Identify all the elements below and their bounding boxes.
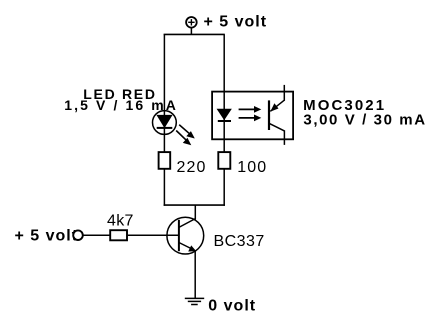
svg-text:BC337: BC337 — [214, 233, 265, 250]
wire right rail upper — [223, 34, 225, 151]
wire R3 to base — [128, 234, 179, 236]
U1 emitter pin — [283, 130, 285, 145]
supply terminal +5V (circle with plus) — [186, 17, 197, 28]
wire terminal to R3 — [83, 234, 109, 236]
U1 phototransistor emitter diagonal — [269, 123, 284, 131]
U1 light arrow 2 — [239, 115, 262, 122]
U1 collector pin — [283, 85, 285, 101]
svg-text:4k7: 4k7 — [107, 213, 134, 230]
Q1 base bar — [178, 220, 180, 251]
LED D1 circle — [153, 111, 177, 135]
Q1 emitter diagonal with arrow — [179, 243, 196, 252]
LED emission arrow 2 — [176, 131, 191, 146]
wire left rail lower — [163, 169, 165, 206]
resistor R2 100 — [218, 152, 230, 169]
LED emission arrow 1 — [179, 125, 195, 139]
wire bottom rail — [164, 204, 225, 206]
optocoupler U1 MOC3021 box — [212, 92, 293, 140]
wire emitter down — [194, 251, 196, 299]
svg-text:0 volt: 0 volt — [208, 297, 256, 314]
resistor R1 220 — [159, 152, 171, 169]
LED D1 anode triangle — [157, 115, 171, 127]
LED D1 cathode bar — [157, 127, 173, 129]
wire right rail lower — [223, 169, 225, 206]
U1 internal LED triangle — [218, 109, 231, 119]
wire top rail — [164, 33, 225, 35]
svg-text:+ 5 volt: + 5 volt — [204, 14, 268, 31]
wire left rail upper — [163, 34, 165, 151]
U1 phototransistor bar — [268, 100, 270, 130]
svg-text:220: 220 — [177, 159, 207, 176]
svg-text:100: 100 — [237, 159, 267, 176]
svg-text:3,00 V / 30 mA: 3,00 V / 30 mA — [303, 112, 426, 129]
U1 light arrow 1 — [239, 106, 262, 113]
U1 internal LED bar — [218, 120, 231, 122]
resistor R3 4k7 — [110, 230, 127, 240]
transistor Q1 BC337 circle — [167, 217, 204, 254]
Q1 collector diagonal — [179, 219, 196, 228]
wire collector drop — [194, 205, 196, 219]
ground — [185, 298, 204, 304]
svg-text:+ 5 volt: + 5 volt — [15, 228, 79, 245]
terminal circle — [73, 230, 83, 240]
wire supply stub — [190, 28, 192, 35]
U1 phototransistor collector diagonal with arrow — [270, 100, 284, 111]
